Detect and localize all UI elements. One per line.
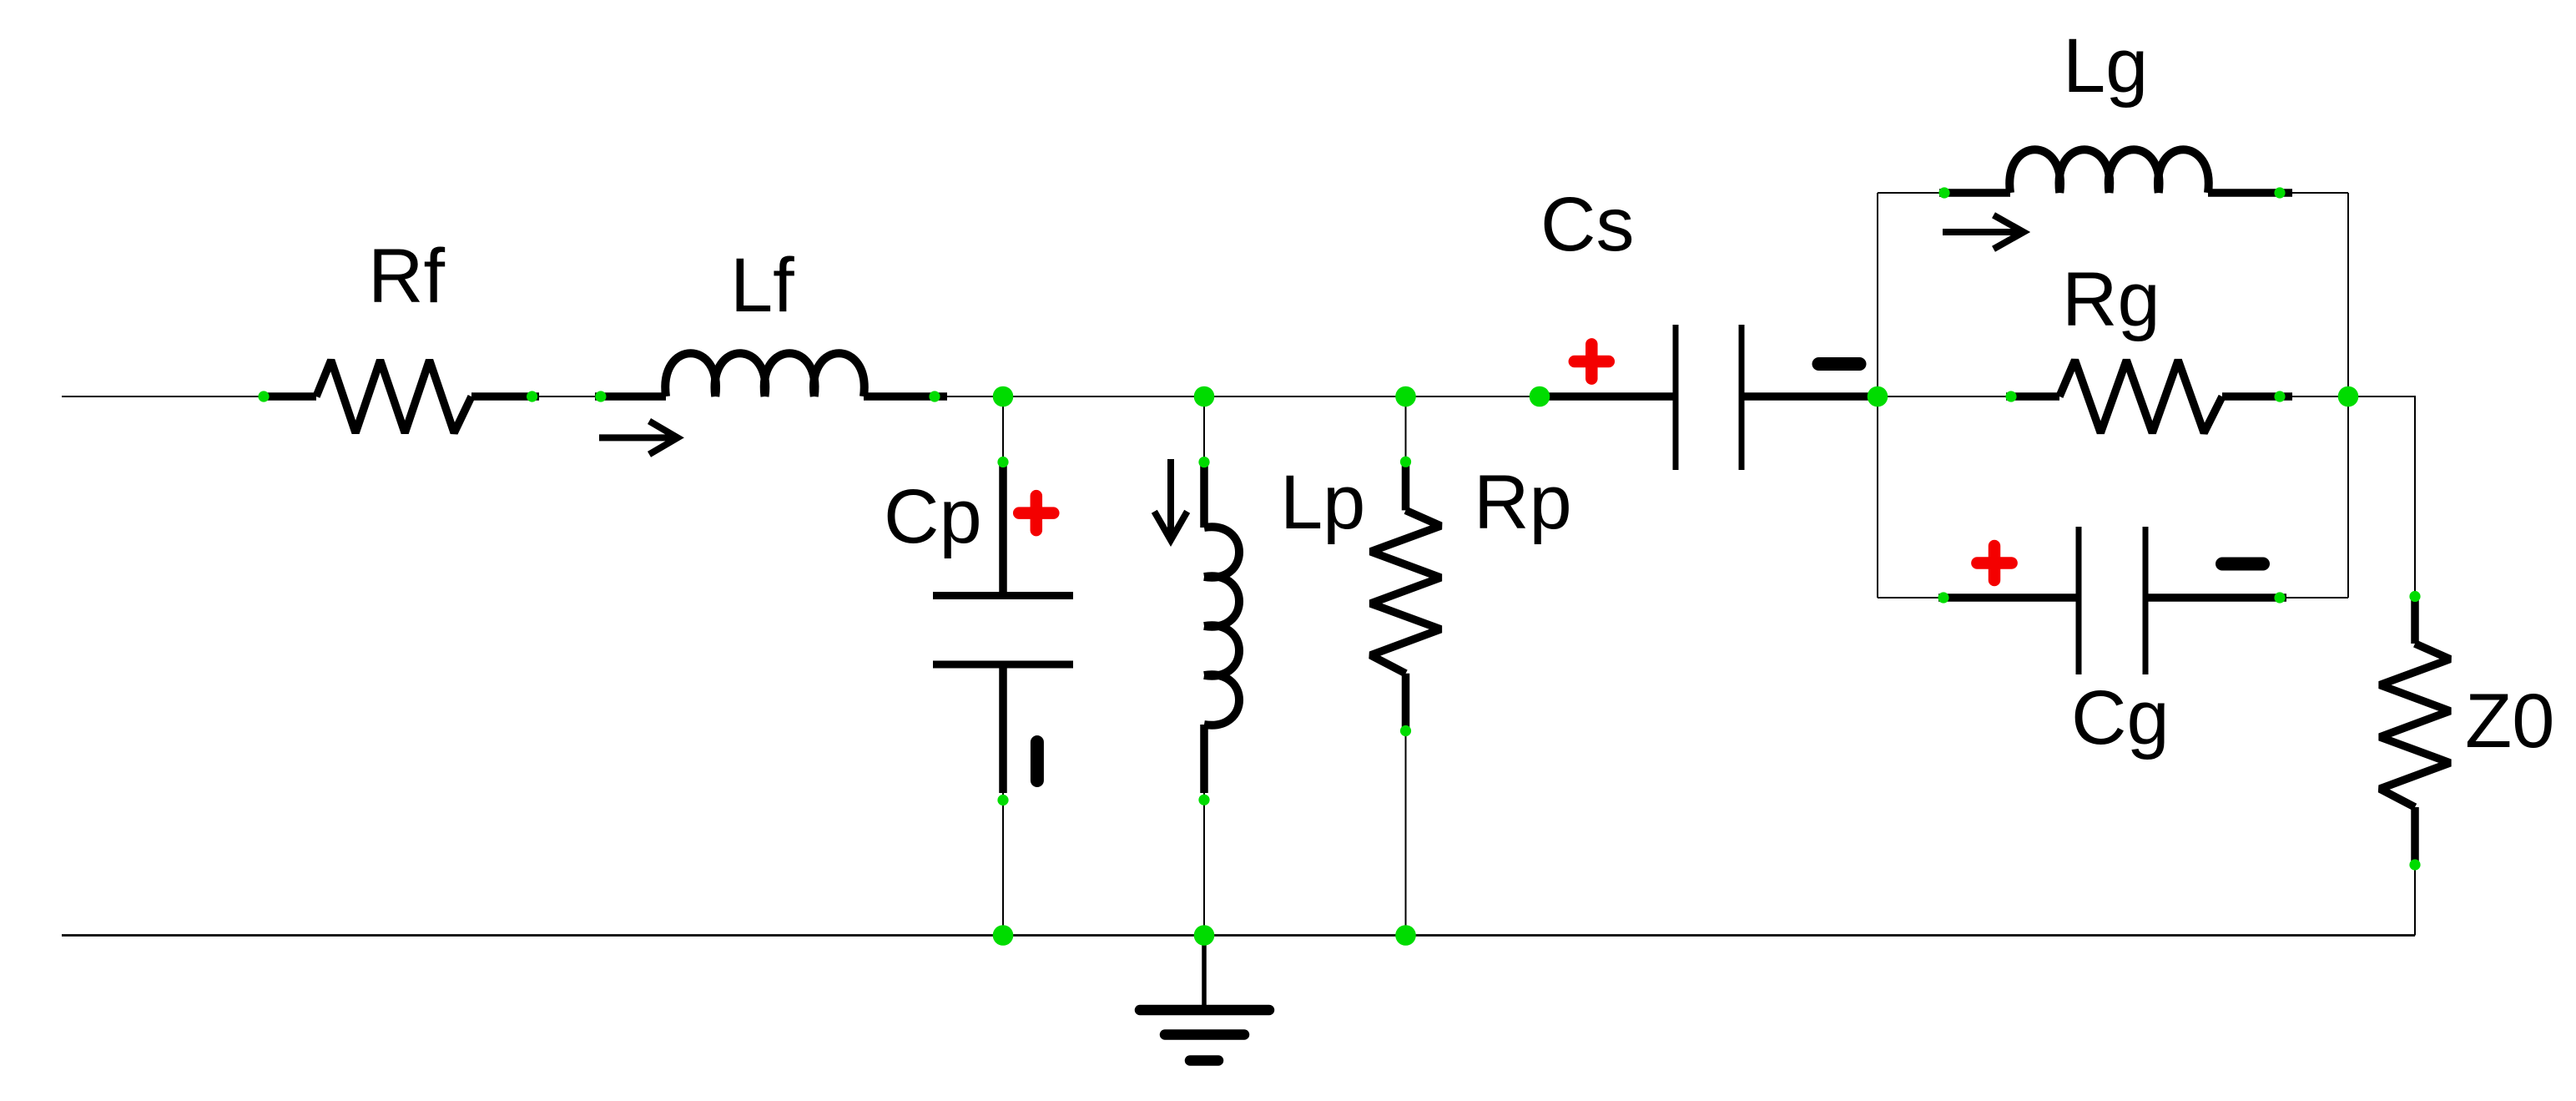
svg-text:Lf: Lf <box>730 243 794 328</box>
svg-text:Lg: Lg <box>2063 23 2148 109</box>
svg-text:Cg: Cg <box>2071 675 2170 760</box>
svg-text:Rp: Rp <box>1474 460 1572 545</box>
svg-text:Cp: Cp <box>884 474 982 559</box>
svg-text:Cs: Cs <box>1540 182 1634 267</box>
svg-text:Rg: Rg <box>2062 257 2160 342</box>
svg-text:Rf: Rf <box>368 234 445 319</box>
svg-text:Lp: Lp <box>1280 460 1365 545</box>
svg-text:Z0: Z0 <box>2465 679 2554 764</box>
